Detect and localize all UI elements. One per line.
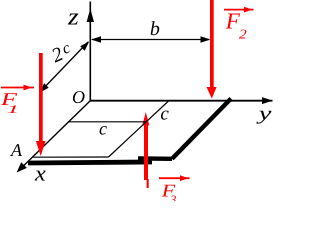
svg-text:z: z (67, 4, 80, 30)
svg-text:b: b (150, 18, 160, 40)
svg-text:3: 3 (169, 193, 176, 202)
svg-text:A: A (10, 140, 23, 160)
svg-text:2: 2 (239, 27, 247, 42)
svg-text:O: O (72, 87, 85, 107)
svg-text:1: 1 (7, 104, 20, 116)
svg-text:y: y (256, 104, 273, 125)
svg-text:x: x (34, 162, 46, 186)
